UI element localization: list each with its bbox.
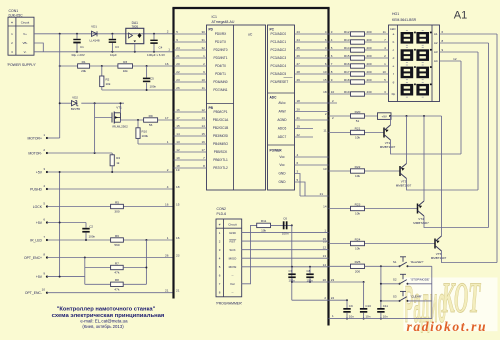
svg-text:51: 51 <box>356 119 360 123</box>
svg-text:23: 23 <box>297 30 301 34</box>
svg-text:R22: R22 <box>355 165 361 169</box>
svg-text:R11: R11 <box>261 219 267 223</box>
svg-text:20: 20 <box>323 278 327 282</box>
svg-text:10: 10 <box>42 288 46 292</box>
svg-text:VD2: VD2 <box>72 96 78 100</box>
svg-text:10k: 10k <box>123 69 128 73</box>
svg-text:10k: 10k <box>106 82 111 86</box>
svg-text:Vcc: Vcc <box>230 282 236 286</box>
svg-text:31: 31 <box>201 38 205 42</box>
svg-text:10: 10 <box>323 70 327 74</box>
svg-text:A4: A4 <box>434 59 438 63</box>
svg-text:R15: R15 <box>344 54 350 58</box>
svg-text:R16: R16 <box>344 62 350 66</box>
svg-text:100n: 100n <box>282 231 289 235</box>
svg-text:16: 16 <box>165 202 169 206</box>
svg-text:10: 10 <box>331 90 335 94</box>
svg-text:7805: 7805 <box>131 25 138 29</box>
svg-text:PD: PD <box>209 28 214 32</box>
svg-text:13: 13 <box>176 140 180 144</box>
svg-text:11: 11 <box>202 86 205 90</box>
svg-text:15: 15 <box>176 202 180 206</box>
svg-text:17: 17 <box>176 116 180 120</box>
svg-text:MOSI: MOSI <box>229 265 237 269</box>
svg-text:10: 10 <box>382 70 386 74</box>
svg-text:R25: R25 <box>355 260 361 264</box>
svg-text:Circuit: Circuit <box>228 223 237 227</box>
svg-text:21: 21 <box>320 192 324 196</box>
svg-text:ARef: ARef <box>278 110 285 114</box>
svg-text:A1: A1 <box>454 9 467 21</box>
svg-text:PC: PC <box>270 28 275 32</box>
svg-text:GND: GND <box>229 231 237 235</box>
svg-text:R1: R1 <box>82 60 86 64</box>
svg-text:47k: 47k <box>114 288 119 292</box>
svg-text:+5V: +5V <box>36 275 43 279</box>
svg-text:47k: 47k <box>114 271 119 275</box>
svg-text:26: 26 <box>297 54 301 58</box>
svg-text:ADC: ADC <box>270 96 278 100</box>
svg-text:PB7/XTL2: PB7/XTL2 <box>213 166 228 170</box>
svg-text:MMBT2907: MMBT2907 <box>431 256 447 260</box>
svg-text:10: 10 <box>201 78 205 82</box>
svg-text:OPT_ENC+: OPT_ENC+ <box>24 256 42 260</box>
svg-text:15: 15 <box>323 237 327 241</box>
svg-text:14: 14 <box>201 124 205 128</box>
svg-text:R23: R23 <box>355 202 361 206</box>
svg-text:10n: 10n <box>349 314 354 318</box>
svg-text:200: 200 <box>367 54 372 58</box>
svg-text:24: 24 <box>176 46 180 50</box>
svg-text:PB4/MISO: PB4/MISO <box>213 142 229 146</box>
svg-text:PC4/ADC4: PC4/ADC4 <box>271 64 287 68</box>
svg-text:C6: C6 <box>283 216 287 220</box>
svg-text:200: 200 <box>367 30 372 34</box>
svg-text:Vcc: Vcc <box>279 163 285 167</box>
svg-text:100n: 100n <box>150 85 157 89</box>
svg-text:S1: S1 <box>393 260 397 264</box>
svg-text:PC6/RESET: PC6/RESET <box>271 80 289 84</box>
svg-text:C7: C7 <box>289 269 293 273</box>
svg-text:R17: R17 <box>344 70 350 74</box>
svg-text:21: 21 <box>165 289 169 293</box>
svg-text:300: 300 <box>114 210 119 214</box>
svg-text:20k: 20k <box>81 69 86 73</box>
svg-text:'RewSET': 'RewSET' <box>411 260 424 264</box>
svg-text:560: 560 <box>114 243 119 247</box>
svg-text:GND: GND <box>278 172 286 176</box>
svg-text:ATmega48-AU: ATmega48-AU <box>212 20 235 24</box>
svg-text:10µF: 10µF <box>110 53 117 57</box>
svg-text:26: 26 <box>165 253 169 257</box>
svg-text:LOCK: LOCK <box>33 205 43 209</box>
svg-text:MMBT2907: MMBT2907 <box>380 145 396 149</box>
svg-text:PB3/MOSI: PB3/MOSI <box>213 134 228 138</box>
svg-text:12: 12 <box>176 148 180 152</box>
svg-text:PD0/RX: PD0/RX <box>215 32 227 36</box>
svg-text:radiokot.ru: radiokot.ru <box>407 319 488 334</box>
svg-text:23: 23 <box>331 278 335 282</box>
svg-text:PC5/ADC5: PC5/ADC5 <box>271 72 287 76</box>
svg-text:PB2/OC1B: PB2/OC1B <box>213 126 229 130</box>
svg-text:56: 56 <box>149 123 153 127</box>
svg-text:14: 14 <box>176 132 180 136</box>
svg-text:PD1/TX: PD1/TX <box>215 40 227 44</box>
svg-text:C2: C2 <box>89 224 93 228</box>
svg-text:SCK: SCK <box>229 248 235 252</box>
svg-text:19: 19 <box>176 168 180 172</box>
svg-text:(Киев, октябрь 2013): (Киев, октябрь 2013) <box>82 324 124 329</box>
svg-text:C1: C1 <box>80 45 84 49</box>
svg-text:R8: R8 <box>115 278 119 282</box>
svg-text:BZV55: BZV55 <box>71 107 81 111</box>
svg-text:Circuit: Circuit <box>21 21 30 25</box>
svg-text:C4: C4 <box>159 46 163 50</box>
svg-text:R12: R12 <box>344 30 350 34</box>
svg-text:100k: 100k <box>142 134 149 138</box>
svg-text:27: 27 <box>297 62 301 66</box>
svg-text:--: -- <box>232 291 234 295</box>
svg-text:C3: C3 <box>115 45 119 49</box>
svg-text:MOTOR+: MOTOR+ <box>27 136 42 140</box>
svg-text:+9V: +9V <box>381 115 386 119</box>
svg-text:4: 4 <box>167 185 169 189</box>
svg-text:C10: C10 <box>365 304 371 308</box>
svg-text:A2: A2 <box>434 41 438 45</box>
svg-text:R21: R21 <box>355 126 361 130</box>
svg-text:PD5/T1: PD5/T1 <box>215 72 226 76</box>
svg-text:R24: R24 <box>355 237 361 241</box>
svg-text:30: 30 <box>201 30 205 34</box>
svg-text:PD7/AIN1: PD7/AIN1 <box>213 88 227 92</box>
svg-text:R18: R18 <box>344 78 350 82</box>
svg-text:430: 430 <box>367 90 372 94</box>
svg-text:ADC7: ADC7 <box>278 135 287 139</box>
svg-text:11: 11 <box>323 129 326 133</box>
svg-text:uC: uC <box>248 33 253 37</box>
svg-text:29: 29 <box>297 78 301 82</box>
svg-text:200: 200 <box>367 70 372 74</box>
svg-text:PD4/T0: PD4/T0 <box>215 64 226 68</box>
svg-text:Dp: Dp <box>392 92 396 96</box>
svg-text:R20: R20 <box>355 110 361 114</box>
svg-text:V-: V- <box>24 50 27 54</box>
svg-text:A1: A1 <box>434 32 438 36</box>
svg-text:PD6/AIN0: PD6/AIN0 <box>213 80 227 84</box>
svg-text:25: 25 <box>297 46 301 50</box>
svg-text:PC1/ADC1: PC1/ADC1 <box>271 40 287 44</box>
svg-text:R3: R3 <box>123 60 127 64</box>
svg-text:10n: 10n <box>365 314 370 318</box>
svg-text:"Контроллер намоточного станка: "Контроллер намоточного станка" <box>57 306 156 312</box>
svg-text:R19: R19 <box>344 90 350 94</box>
svg-text:+5V: +5V <box>36 170 43 174</box>
svg-text:PB1/OC1A: PB1/OC1A <box>213 118 229 122</box>
svg-text:PD2/INT0: PD2/INT0 <box>214 48 228 52</box>
svg-text:18: 18 <box>176 185 180 189</box>
svg-text:200: 200 <box>367 38 372 42</box>
svg-text:VD1: VD1 <box>91 25 97 29</box>
svg-text:Vcc: Vcc <box>279 155 285 159</box>
svg-text:15: 15 <box>176 124 180 128</box>
svg-text:'STOP/MODE': 'STOP/MODE' <box>411 277 431 281</box>
svg-text:12: 12 <box>453 57 457 61</box>
svg-text:A3: A3 <box>434 50 438 54</box>
svg-text:1: 1 <box>168 48 170 52</box>
svg-text:HG1: HG1 <box>392 12 399 16</box>
svg-text:C5: C5 <box>150 77 154 81</box>
svg-text:AGND: AGND <box>277 118 287 122</box>
svg-text:MMBT2907: MMBT2907 <box>396 184 412 188</box>
svg-text:--: -- <box>232 274 234 278</box>
svg-text:32: 32 <box>201 46 205 50</box>
svg-text:IC1: IC1 <box>212 15 218 19</box>
svg-text:1: 1 <box>167 140 169 144</box>
svg-text:V+: V+ <box>23 32 27 36</box>
svg-text:15: 15 <box>323 78 327 82</box>
svg-text:KEM-5641-BSR: KEM-5641-BSR <box>392 18 417 22</box>
svg-text:18: 18 <box>176 164 180 168</box>
svg-text:VT1: VT1 <box>116 105 122 109</box>
svg-text:200: 200 <box>355 270 360 274</box>
svg-text:17: 17 <box>201 148 205 152</box>
svg-text:AVcc: AVcc <box>278 101 286 105</box>
svg-text:14: 14 <box>323 205 327 209</box>
svg-text:23: 23 <box>176 78 180 82</box>
svg-text:12: 12 <box>323 246 327 250</box>
svg-text:PB5/SCK: PB5/SCK <box>214 150 228 154</box>
svg-text:ADC6: ADC6 <box>278 127 287 131</box>
svg-text:GND: GND <box>278 180 286 184</box>
svg-text:17: 17 <box>165 116 169 120</box>
svg-text:OPT_ENC-: OPT_ENC- <box>25 291 42 295</box>
svg-text:23: 23 <box>176 253 180 257</box>
svg-text:MOTOR-: MOTOR- <box>28 151 42 155</box>
svg-text:13: 13 <box>323 167 327 171</box>
svg-text:CON2: CON2 <box>217 207 227 211</box>
svg-text:R13: R13 <box>344 38 350 42</box>
svg-text:R14: R14 <box>344 46 350 50</box>
svg-text:2: 2 <box>167 168 169 172</box>
svg-text:18: 18 <box>323 90 327 94</box>
svg-text:PD3/INT1: PD3/INT1 <box>214 56 228 60</box>
svg-text:S3: S3 <box>393 295 397 299</box>
svg-text:PLD-6: PLD-6 <box>217 212 227 216</box>
svg-text:200: 200 <box>367 62 372 66</box>
svg-text:10k: 10k <box>355 212 360 216</box>
svg-text:PUSHD: PUSHD <box>30 187 42 191</box>
svg-text:+5V: +5V <box>36 221 43 225</box>
svg-text:PB0/ICP1: PB0/ICP1 <box>214 110 228 114</box>
svg-text:10k: 10k <box>355 174 360 178</box>
svg-text:1k: 1k <box>116 161 120 165</box>
svg-text:R5: R5 <box>115 200 119 204</box>
svg-text:R6: R6 <box>115 234 119 238</box>
svg-text:R10: R10 <box>142 130 148 134</box>
svg-text:PC3/ADC3: PC3/ADC3 <box>271 56 287 60</box>
svg-text:'PROGRAMMER': 'PROGRAMMER' <box>216 302 243 306</box>
svg-text:26: 26 <box>176 86 180 90</box>
svg-text:R2: R2 <box>106 78 110 82</box>
svg-text:13: 13 <box>323 254 327 258</box>
svg-text:КОТ: КОТ <box>441 275 481 323</box>
svg-text:10k: 10k <box>261 229 266 233</box>
svg-text:POWER: POWER <box>270 149 283 153</box>
svg-text:VB-: VB- <box>22 41 27 45</box>
svg-text:PC0/ADC0: PC0/ADC0 <box>271 32 287 36</box>
svg-text:IR_LED: IR_LED <box>30 238 42 242</box>
svg-text:14: 14 <box>323 263 327 267</box>
svg-text:C11: C11 <box>383 304 389 308</box>
svg-text:IRLML2502: IRLML2502 <box>112 125 128 129</box>
svg-text:10k: 10k <box>355 247 360 251</box>
svg-text:22: 22 <box>176 70 180 74</box>
svg-text:R9: R9 <box>149 114 153 118</box>
svg-text:100µF x 6.3V: 100µF x 6.3V <box>147 53 165 57</box>
svg-text:10n: 10n <box>383 314 388 318</box>
svg-text:200: 200 <box>367 46 372 50</box>
svg-text:33µ x 20V: 33µ x 20V <box>71 53 85 57</box>
svg-text:28: 28 <box>297 70 301 74</box>
svg-text:RST: RST <box>230 239 236 243</box>
svg-text:MISO: MISO <box>229 256 237 260</box>
svg-text:16: 16 <box>201 140 205 144</box>
svg-text:S2: S2 <box>393 277 397 281</box>
svg-text:24: 24 <box>297 38 301 42</box>
svg-text:2: 2 <box>167 29 169 33</box>
svg-text:CON1: CON1 <box>9 9 19 13</box>
svg-text:PB6/XTL1: PB6/XTL1 <box>213 158 228 162</box>
svg-text:LL4148: LL4148 <box>89 39 99 43</box>
svg-text:16: 16 <box>176 108 180 112</box>
svg-text:C8: C8 <box>307 269 311 273</box>
svg-text:12: 12 <box>201 108 205 112</box>
svg-text:100n: 100n <box>89 234 96 238</box>
svg-text:'CLEAR': 'CLEAR' <box>411 295 423 299</box>
svg-text:10k: 10k <box>355 136 360 140</box>
svg-text:1: 1 <box>167 236 169 240</box>
svg-text:200: 200 <box>367 78 372 82</box>
svg-text:19: 19 <box>176 156 180 160</box>
svg-text:20: 20 <box>176 62 180 66</box>
svg-text:13: 13 <box>201 116 205 120</box>
svg-text:'POWER SUPPLY': 'POWER SUPPLY' <box>7 63 36 67</box>
svg-text:MMBT2907: MMBT2907 <box>413 221 429 225</box>
svg-text:21: 21 <box>176 54 180 58</box>
svg-text:15: 15 <box>201 132 205 136</box>
svg-text:R4: R4 <box>116 156 120 160</box>
svg-text:C9: C9 <box>349 304 353 308</box>
svg-text:LED: LED <box>390 27 395 31</box>
svg-text:16: 16 <box>165 62 169 66</box>
svg-text:11: 11 <box>383 30 386 34</box>
svg-text:16: 16 <box>176 236 180 240</box>
svg-text:21: 21 <box>176 289 180 293</box>
svg-text:PC2/ADC2: PC2/ADC2 <box>271 48 287 52</box>
svg-text:R7: R7 <box>115 261 119 265</box>
svg-text:22: 22 <box>331 296 335 300</box>
